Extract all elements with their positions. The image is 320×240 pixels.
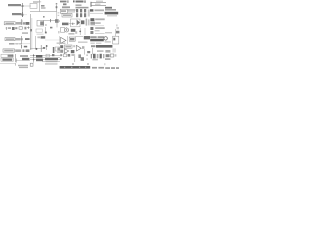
wire bbox=[56, 21, 58, 27]
label header plate bbox=[90, 39, 104, 42]
label bot plate bbox=[45, 58, 58, 60]
capacitor C9 bbox=[50, 19, 52, 22]
wire big box right edge bbox=[56, 12, 58, 21]
label u20 note bbox=[105, 58, 111, 60]
inductor L3 bbox=[93, 54, 96, 59]
label U6 note bbox=[37, 34, 44, 35]
label note row y43 a bbox=[90, 43, 94, 44]
resistor R2 bbox=[73, 0, 75, 2]
label net IF box bbox=[3, 49, 15, 52]
wire bbox=[67, 9, 76, 11]
label note small b bbox=[19, 67, 28, 68]
label net OUT bbox=[105, 7, 112, 9]
resistor R14 bbox=[15, 49, 21, 52]
wire bbox=[84, 28, 86, 35]
wire bbox=[15, 54, 17, 62]
label U11 bbox=[70, 38, 74, 40]
block conn box bbox=[30, 63, 33, 66]
capacitor C13 bbox=[37, 36, 40, 38]
label net row1 text bbox=[95, 18, 105, 20]
wire mark bbox=[30, 29, 32, 31]
block U8a outline bbox=[71, 19, 81, 27]
wire bbox=[74, 54, 76, 62]
label note small a bbox=[18, 65, 28, 66]
block U17 bbox=[116, 31, 119, 34]
label bot text bbox=[45, 63, 58, 64]
block U6 bbox=[36, 29, 42, 32]
wire bus top bbox=[30, 11, 57, 13]
wire bbox=[90, 12, 103, 14]
label net RF bbox=[6, 38, 14, 40]
label D1 value bbox=[95, 9, 105, 11]
label note 2 bbox=[107, 15, 117, 16]
diode D1 bbox=[90, 9, 93, 11]
capacitor C7 bbox=[12, 27, 15, 30]
wire bbox=[46, 45, 48, 50]
label 20 bbox=[63, 3, 67, 5]
label tick above box U5 bbox=[43, 16, 45, 18]
wire bbox=[15, 43, 30, 45]
capacitor C18 bbox=[73, 45, 75, 47]
label plate 3 bbox=[96, 45, 112, 48]
wire h3 bbox=[30, 59, 60, 61]
label MIX bbox=[60, 1, 67, 3]
node dot 3 bbox=[79, 31, 81, 33]
transformer T1 core bbox=[84, 9, 86, 17]
capacitor C1 bbox=[21, 3, 23, 17]
resistor R21 bbox=[78, 54, 81, 58]
resistor R11 bbox=[50, 27, 52, 29]
wire bbox=[115, 29, 117, 36]
block U12 dark bbox=[84, 36, 90, 39]
capacitor C5 bbox=[84, 0, 85, 2]
terminal strip pins bbox=[91, 54, 92, 58]
label pin numbers bbox=[58, 12, 60, 13]
capacitor C15 bbox=[72, 23, 74, 25]
wire h1 bbox=[30, 54, 60, 56]
label pin numbers 2 bbox=[58, 15, 60, 16]
label PWR bbox=[76, 1, 84, 3]
label U17 note bbox=[105, 32, 112, 33]
label U7 note bbox=[57, 52, 60, 53]
capacitor C20 bbox=[116, 24, 118, 26]
wire bbox=[75, 36, 83, 38]
resistor R1 bbox=[41, 7, 46, 8]
label U13 bbox=[65, 46, 71, 48]
resistor R10 bbox=[15, 27, 17, 29]
label U7 bbox=[57, 48, 59, 51]
wire bot bus bbox=[33, 54, 35, 63]
op-amp U14 bbox=[64, 49, 68, 54]
capacitor C23 bbox=[52, 54, 54, 56]
label U9 bbox=[71, 29, 76, 32]
label net name mid bbox=[95, 4, 101, 5]
block U20 bbox=[110, 54, 113, 57]
block XTAL Y1 bbox=[19, 27, 22, 29]
resistor R12 bbox=[15, 38, 20, 40]
title bar text seg 2 bbox=[98, 67, 104, 69]
node junction dot 1 bbox=[33, 55, 35, 57]
resistor R17 bbox=[53, 47, 55, 53]
node junction dot 2 bbox=[33, 59, 35, 61]
resistor R4 bbox=[76, 4, 82, 6]
block U21 tall box bbox=[113, 36, 119, 44]
node dot 2 bbox=[46, 45, 48, 47]
capacitor C22 bbox=[15, 63, 17, 66]
node J2 bbox=[21, 38, 23, 40]
title bar left bbox=[60, 66, 91, 69]
label net IF bbox=[4, 50, 13, 52]
label lc note bbox=[92, 59, 98, 61]
label net RF box bbox=[5, 38, 15, 41]
wire h4 bbox=[42, 61, 60, 63]
label out text 1 bbox=[8, 55, 14, 57]
wire tick above U9 bbox=[66, 27, 68, 28]
antenna arrow bbox=[56, 3, 58, 12]
node plus bbox=[27, 26, 30, 29]
diode D5 bbox=[90, 31, 93, 34]
wire out top bbox=[91, 2, 106, 4]
wire bbox=[45, 27, 47, 32]
diode D7 bbox=[106, 54, 110, 57]
wire bbox=[24, 5, 31, 7]
transistor Q2 bbox=[40, 45, 42, 52]
resistor R22 bbox=[117, 27, 120, 29]
label out box left 2 bbox=[1, 58, 13, 61]
label net row4 bbox=[95, 30, 100, 31]
label plate tail bbox=[105, 41, 111, 43]
wire vertical J2 bbox=[21, 36, 23, 45]
label note row y43 b bbox=[96, 43, 101, 44]
label net row2 bbox=[90, 22, 95, 25]
resistor R7 bbox=[16, 22, 22, 25]
resistor R16 bbox=[41, 36, 46, 38]
label R1 value bbox=[41, 5, 45, 7]
wire faint bottom bbox=[0, 63, 15, 65]
resistor R18 bbox=[88, 19, 90, 25]
transistor Q3 bbox=[81, 57, 84, 61]
capacitor C12 bbox=[22, 49, 24, 52]
label dark plate b bbox=[22, 58, 29, 60]
label net name top bbox=[96, 1, 103, 2]
label out box left bbox=[1, 54, 13, 57]
wire left bus 1 bbox=[30, 14, 32, 50]
capacitor C29 bbox=[115, 54, 117, 56]
label net LO box bbox=[4, 22, 15, 25]
wire bbox=[92, 48, 94, 54]
op-amp U10 bbox=[61, 37, 66, 43]
title bar text speckles bbox=[64, 67, 65, 68]
wire bbox=[69, 23, 75, 25]
block U11 bbox=[69, 37, 75, 41]
label input net IN1 bbox=[8, 4, 21, 6]
capacitor C25 bbox=[86, 54, 88, 56]
inductor L1 bbox=[23, 22, 25, 24]
op-amp U16 bbox=[76, 45, 81, 51]
resistor R13b bbox=[15, 43, 18, 44]
capacitor C19 bbox=[82, 46, 84, 49]
block U13 bbox=[64, 45, 72, 48]
relay K1 contacts bbox=[36, 59, 43, 62]
label R13 value bbox=[9, 43, 15, 45]
capacitor C11 bbox=[21, 45, 23, 48]
label out text 2 bbox=[2, 59, 12, 61]
transformer T1 winding 1 bbox=[76, 9, 78, 17]
wire bbox=[79, 28, 81, 35]
relay K1 bbox=[36, 55, 42, 58]
capacitor C31 bbox=[87, 63, 89, 65]
diode D2 bbox=[77, 20, 80, 26]
label VCO bbox=[62, 23, 69, 26]
block U2 mixer bbox=[60, 9, 67, 13]
capacitor C4 bbox=[67, 0, 68, 2]
resistor R15 bbox=[26, 49, 30, 52]
resistor R20 bbox=[71, 54, 74, 56]
label net row2 text bbox=[95, 22, 101, 24]
capacitor C10 bbox=[58, 31, 60, 33]
wire h2 bbox=[30, 56, 60, 58]
diode D3 bbox=[60, 45, 63, 48]
resistor R6 bbox=[88, 10, 90, 17]
label amp note bbox=[60, 43, 65, 44]
inductor L4 bbox=[100, 54, 102, 59]
wire bbox=[95, 33, 105, 35]
wire bbox=[16, 60, 30, 62]
wire bbox=[84, 49, 86, 55]
diode D4 bbox=[90, 27, 93, 30]
title bar text seg 1 bbox=[92, 67, 97, 69]
block U18 bbox=[46, 54, 49, 57]
node dot bbox=[35, 48, 37, 50]
wire right edge bbox=[59, 36, 61, 45]
wire left bus 2 bbox=[31, 18, 33, 50]
mixer U9 cross bbox=[66, 29, 67, 30]
diode D6 bbox=[60, 54, 62, 56]
mixer circle U9 bbox=[65, 28, 69, 32]
connector J3 circle bbox=[104, 37, 107, 40]
inductor L2 bbox=[81, 20, 84, 24]
label bot note bbox=[46, 61, 58, 62]
capacitor C17 bbox=[75, 31, 77, 34]
label mid note bbox=[57, 42, 60, 44]
ground bbox=[6, 27, 8, 30]
label header row bbox=[90, 36, 97, 38]
block U5 bbox=[37, 20, 44, 26]
block U1 filter bbox=[30, 3, 37, 8]
block U3 bbox=[68, 9, 75, 12]
node dot 4 bbox=[60, 58, 62, 60]
wire node A bbox=[39, 0, 41, 12]
transformer T1 gap marks bbox=[76, 12, 87, 13]
capacitor C21 bbox=[112, 48, 116, 52]
resistor R9 bbox=[8, 27, 11, 29]
resistor R8 bbox=[25, 22, 29, 25]
block U7 bbox=[55, 47, 60, 51]
transistor Q1 emitter mark bbox=[59, 20, 60, 22]
terminal pin 1 bbox=[90, 2, 91, 7]
capacitor C27 bbox=[97, 54, 99, 58]
label title note bbox=[105, 9, 116, 11]
title bar text seg 5 bbox=[116, 67, 119, 69]
label U4 bbox=[63, 14, 71, 16]
label net LO bbox=[5, 23, 14, 25]
label net row3 text bbox=[95, 27, 105, 29]
block U15 bbox=[71, 50, 75, 53]
label U12 note bbox=[78, 41, 88, 43]
label mid text bbox=[20, 55, 28, 57]
label part number plate bbox=[105, 12, 119, 15]
label rev tick bbox=[104, 63, 105, 65]
label U2 bbox=[61, 10, 66, 12]
capacitor C8 bbox=[24, 27, 26, 30]
label Q1 value bbox=[45, 24, 47, 26]
label U14 bbox=[60, 50, 63, 53]
ground 4 bbox=[15, 59, 17, 63]
resistor R5 bbox=[76, 7, 89, 9]
capacitor C2 bbox=[21, 12, 23, 17]
wire bbox=[67, 36, 69, 44]
label header row b bbox=[98, 36, 104, 38]
capacitor C28 bbox=[103, 54, 104, 58]
capacitor C3 bbox=[56, 6, 58, 8]
wire out mid bbox=[91, 5, 106, 7]
label small2 bbox=[97, 50, 104, 52]
capacitor C26 bbox=[86, 58, 88, 60]
wire cross h bbox=[30, 48, 45, 50]
ground 3 bbox=[24, 46, 27, 48]
block U19 bbox=[63, 54, 66, 57]
label U5 bbox=[40, 21, 44, 25]
title bar text seg 4 bbox=[111, 67, 115, 69]
wire bbox=[44, 20, 57, 22]
capacitor C6 bbox=[21, 19, 23, 25]
title bar text seg 3 bbox=[105, 67, 110, 69]
transistor Q1 bbox=[55, 19, 59, 23]
label C8 value bbox=[22, 32, 28, 34]
resistor R3 bbox=[62, 6, 70, 8]
capacitor C16 bbox=[86, 19, 88, 26]
label input net IN2 bbox=[12, 13, 22, 15]
label U9 note bbox=[68, 33, 74, 35]
resistor R13 bbox=[25, 38, 30, 40]
resistor R19 bbox=[87, 51, 90, 53]
transformer T1 winding 2 bbox=[80, 9, 82, 17]
label U1 name bbox=[33, 1, 39, 3]
resistor R13c bbox=[19, 43, 22, 44]
wire tee at node A bbox=[38, 1, 41, 3]
diode D8 in U21 bbox=[113, 38, 115, 41]
capacitor C24 bbox=[68, 54, 71, 57]
wire mid bus 1 bbox=[35, 36, 37, 49]
capacitor C14 bbox=[43, 47, 45, 49]
label net row1 bbox=[90, 18, 94, 21]
block U8 bbox=[60, 28, 64, 33]
ground 2 bbox=[45, 32, 47, 34]
label small3 bbox=[105, 50, 110, 53]
capacitor C30 bbox=[72, 63, 74, 65]
wire net row mid bbox=[90, 25, 104, 27]
wire bbox=[24, 14, 27, 16]
block U4 bbox=[62, 13, 72, 17]
wire bbox=[45, 39, 60, 41]
label small1 bbox=[91, 45, 95, 47]
